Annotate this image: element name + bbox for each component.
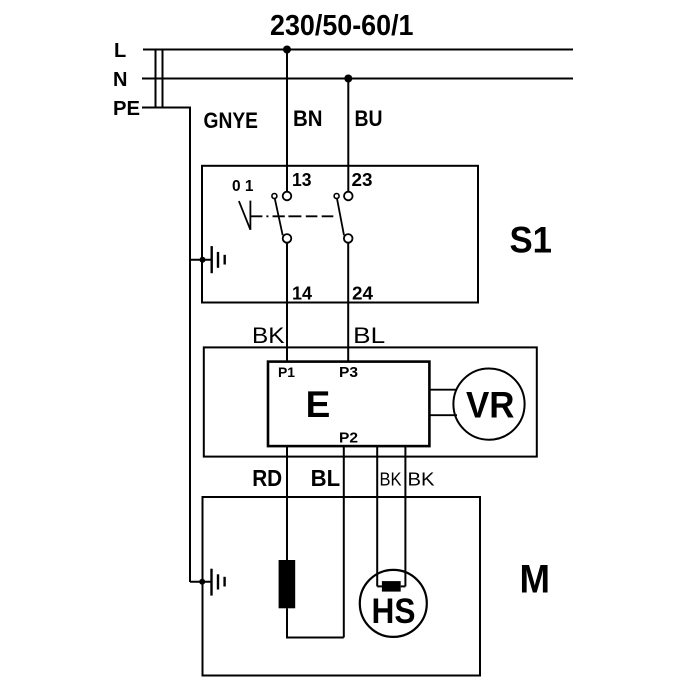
svg-text:BL: BL (353, 323, 385, 348)
svg-text:HS: HS (372, 592, 416, 631)
svg-text:BU: BU (355, 106, 383, 131)
svg-text:N: N (113, 69, 127, 91)
cable tick 1 (155, 50, 157, 108)
wire N line (142, 78, 573, 80)
stub left to HS rect (377, 585, 382, 587)
contact 2 top terminal circle (344, 192, 353, 201)
box M (203, 497, 481, 676)
svg-text:BK: BK (252, 323, 285, 348)
contact 2 blade (337, 199, 344, 236)
box S1 (202, 166, 478, 303)
contact 2 bottom terminal circle (344, 234, 353, 243)
dash-dot coupling line (250, 215, 333, 217)
wire BL lower (343, 446, 345, 638)
ground symbol S1 (190, 246, 225, 273)
wire BN (286, 50, 288, 193)
selector lever vertical (249, 201, 251, 230)
box E outer (204, 347, 537, 456)
wire PE line and vertical PE conductor (142, 108, 190, 583)
stub right to HS rect (401, 585, 406, 587)
svg-text:P2: P2 (339, 431, 358, 447)
svg-text:RD: RD (252, 465, 282, 491)
svg-text:P1: P1 (278, 364, 295, 380)
VR connector line top (429, 389, 457, 391)
junction dot on N (344, 75, 352, 83)
svg-text:BN: BN (293, 106, 323, 131)
wire L line (143, 49, 573, 51)
contact 1 hook (272, 194, 277, 199)
wire BL (contact2 to E P3) (347, 243, 349, 362)
junction dot on L (283, 46, 291, 54)
svg-text:E: E (306, 384, 331, 425)
svg-text:S1: S1 (510, 220, 553, 261)
cable tick 2 (162, 50, 164, 108)
svg-text:0 1: 0 1 (232, 178, 254, 195)
ground symbol M (190, 569, 225, 596)
svg-text:VR: VR (466, 384, 515, 425)
svg-text:P3: P3 (339, 365, 358, 381)
wire BU (347, 79, 349, 193)
wire BK (contact1 to E P1) (286, 243, 288, 362)
svg-text:13: 13 (292, 170, 312, 190)
svg-text:L: L (114, 40, 126, 62)
svg-text:23: 23 (352, 170, 373, 190)
svg-text:BK: BK (380, 470, 402, 490)
svg-text:230/50-60/1: 230/50-60/1 (270, 10, 414, 42)
svg-text:BK: BK (408, 470, 435, 490)
HS circle (360, 570, 427, 637)
wire from choke bottom to BL (287, 608, 344, 637)
wire RD (286, 446, 288, 561)
svg-text:M: M (520, 558, 551, 602)
svg-text:14: 14 (292, 284, 312, 304)
contact 1 top terminal circle (283, 192, 292, 201)
component choke (black rect) (279, 560, 296, 608)
svg-text:GNYE: GNYE (204, 108, 259, 133)
wire BK1 (376, 446, 378, 587)
svg-text:24: 24 (352, 284, 373, 304)
VR connector line bottom (429, 414, 457, 416)
selector lever slant (239, 201, 251, 230)
svg-text:BL: BL (311, 465, 341, 491)
svg-text:PE: PE (113, 98, 140, 120)
contact 2 hook (334, 194, 339, 199)
contact 1 blade (275, 199, 283, 236)
HS thermal contact (black rect) (382, 581, 401, 592)
contact 1 bottom terminal circle (283, 234, 292, 243)
VR circle (453, 369, 524, 440)
box E inner (268, 362, 429, 447)
wire BK2 (404, 446, 406, 587)
